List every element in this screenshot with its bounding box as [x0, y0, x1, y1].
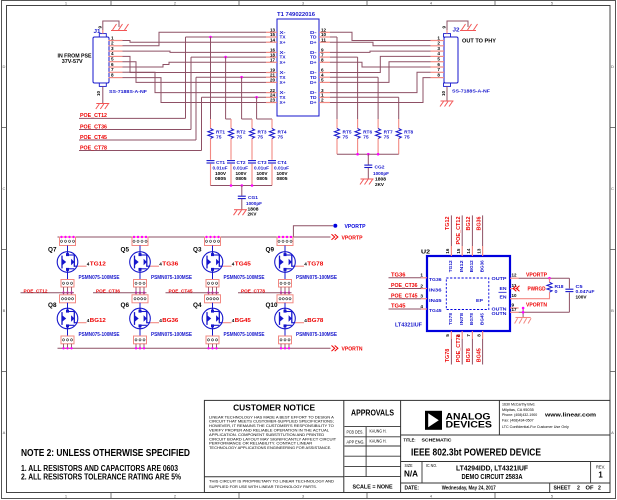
svg-text:EN: EN: [500, 286, 508, 292]
svg-text:VPORTP: VPORTP: [526, 273, 548, 279]
svg-text:75: 75: [258, 135, 264, 140]
svg-text:POE_CT78: POE_CT78: [456, 334, 462, 362]
svg-text:BG45: BG45: [476, 348, 482, 362]
svg-text:VPORTP: VPORTP: [345, 224, 367, 230]
svg-text:Phone: (408)432-1900: Phone: (408)432-1900: [502, 412, 538, 417]
svg-text:Q7: Q7: [48, 248, 57, 254]
svg-text:A: A: [611, 430, 614, 435]
svg-text:IEEE 802.3bt POWERED DEVICE: IEEE 802.3bt POWERED DEVICE: [411, 447, 541, 458]
svg-text:TG36: TG36: [429, 277, 442, 283]
svg-text:D+: D+: [310, 80, 317, 85]
svg-text:Milpitas, CA 95035: Milpitas, CA 95035: [502, 407, 534, 412]
svg-text:X+: X+: [280, 100, 286, 105]
svg-text:SUPPLIED FOR USE WITH LINEAR T: SUPPLIED FOR USE WITH LINEAR TECHNOLOGY …: [209, 484, 317, 489]
svg-text:CT4: CT4: [278, 160, 288, 165]
svg-text:VPORTN: VPORTN: [342, 347, 363, 353]
svg-text:PSMN075-100MSE: PSMN075-100MSE: [224, 275, 266, 281]
svg-text:3: 3: [437, 46, 440, 51]
svg-text:REV.: REV.: [596, 465, 605, 470]
svg-text:SIZE: SIZE: [405, 463, 413, 468]
svg-text:IN12: IN12: [459, 260, 464, 273]
svg-text:POE_CT12: POE_CT12: [456, 216, 462, 244]
svg-text:0.01uF: 0.01uF: [254, 166, 269, 171]
svg-text:www.linear.com: www.linear.com: [544, 413, 597, 419]
svg-text:NOTE 2: UNLESS OTHERWISE SPECI: NOTE 2: UNLESS OTHERWISE SPECIFIED: [21, 448, 190, 459]
svg-text:11: 11: [321, 37, 327, 42]
svg-text:0.01uF: 0.01uF: [233, 166, 248, 171]
svg-text:J1: J1: [94, 29, 101, 35]
svg-text:DATE:: DATE:: [405, 485, 420, 491]
svg-text:IN45: IN45: [429, 298, 442, 304]
svg-text:LT4321IUF: LT4321IUF: [395, 323, 422, 329]
svg-text:3: 3: [111, 46, 114, 51]
svg-text:KAUNG H.: KAUNG H.: [370, 438, 387, 443]
svg-text:TG78: TG78: [445, 349, 451, 363]
svg-text:DEMO CIRCUIT 2583A: DEMO CIRCUIT 2583A: [462, 472, 523, 481]
svg-text:7: 7: [437, 67, 440, 72]
svg-text:X+: X+: [280, 60, 286, 65]
svg-text:TG78: TG78: [448, 313, 453, 325]
svg-text:CG1: CG1: [248, 195, 259, 200]
svg-text:KAUNG H.: KAUNG H.: [370, 429, 387, 434]
svg-text:7: 7: [111, 67, 114, 72]
svg-text:23: 23: [270, 98, 276, 103]
svg-text:PSMN075-100MSE: PSMN075-100MSE: [151, 332, 193, 338]
svg-text:75: 75: [363, 135, 369, 140]
svg-text:TG45: TG45: [235, 262, 251, 268]
svg-text:B: B: [3, 308, 6, 313]
svg-text:PSMN075-100MSE: PSMN075-100MSE: [151, 275, 193, 281]
svg-text:X+: X+: [280, 80, 286, 85]
svg-text:17: 17: [270, 58, 276, 63]
svg-text:CT2: CT2: [237, 160, 247, 165]
svg-text:2. ALL RESISTORS TOLERANCE RAT: 2. ALL RESISTORS TOLERANCE RATING ARE 5%: [21, 473, 181, 482]
svg-text:POE_CT36: POE_CT36: [80, 124, 107, 130]
svg-text:BG78: BG78: [469, 313, 474, 325]
svg-text:Q8: Q8: [48, 303, 57, 309]
svg-text:TITLE:: TITLE:: [404, 437, 416, 442]
svg-text:75: 75: [216, 135, 222, 140]
svg-text:2KV: 2KV: [375, 182, 384, 187]
svg-text:0805: 0805: [257, 176, 269, 181]
svg-text:U2: U2: [421, 250, 430, 256]
svg-text:Q6: Q6: [121, 303, 130, 309]
svg-text:1808: 1808: [375, 176, 387, 181]
svg-text:SS-7188S-A-NF: SS-7188S-A-NF: [109, 89, 147, 94]
svg-text:14: 14: [270, 37, 276, 42]
svg-text:OF: OF: [586, 485, 594, 491]
svg-text:PWRGD: PWRGD: [528, 287, 546, 293]
svg-text:Q9: Q9: [266, 248, 275, 254]
svg-text:17: 17: [512, 307, 517, 313]
svg-text:CT1: CT1: [216, 160, 226, 165]
svg-text:2: 2: [437, 41, 440, 46]
svg-text:N/A: N/A: [404, 470, 418, 479]
svg-text:TG45: TG45: [391, 304, 406, 310]
svg-text:EP: EP: [476, 298, 483, 303]
svg-text:POE_CT36: POE_CT36: [391, 283, 418, 289]
svg-text:A: A: [3, 430, 6, 435]
svg-text:D+: D+: [310, 60, 317, 65]
svg-text:IN78: IN78: [459, 312, 464, 325]
svg-text:BG36: BG36: [479, 260, 484, 272]
svg-text:5: 5: [111, 57, 114, 62]
svg-text:IN36: IN36: [429, 288, 442, 294]
svg-text:SCALE = NONE: SCALE = NONE: [353, 484, 393, 490]
svg-text:CUSTOMER NOTICE: CUSTOMER NOTICE: [233, 403, 315, 413]
svg-text:13: 13: [476, 248, 482, 253]
svg-text:8: 8: [476, 334, 482, 337]
svg-text:TG45: TG45: [429, 308, 442, 314]
svg-text:2: 2: [111, 41, 114, 46]
svg-text:Q3: Q3: [193, 248, 202, 254]
svg-text:75: 75: [237, 135, 243, 140]
svg-text:2: 2: [577, 485, 580, 491]
svg-text:3: 3: [420, 294, 423, 300]
svg-text:TG36: TG36: [391, 273, 406, 279]
svg-text:Q5: Q5: [121, 248, 130, 254]
svg-text:BG78: BG78: [307, 318, 323, 324]
svg-text:PSMN075-100MSE: PSMN075-100MSE: [296, 332, 338, 338]
svg-text:75: 75: [343, 135, 349, 140]
svg-text:D: D: [611, 64, 614, 69]
svg-text:2: 2: [420, 283, 423, 289]
svg-text:D+: D+: [310, 40, 317, 45]
svg-text:75: 75: [384, 135, 390, 140]
svg-text:BG36: BG36: [162, 318, 178, 324]
svg-text:APP ENG.: APP ENG.: [347, 440, 365, 445]
svg-text:6: 6: [111, 62, 114, 67]
svg-text:SCHEMATIC: SCHEMATIC: [422, 437, 453, 442]
svg-text:37V-57V: 37V-57V: [62, 59, 83, 65]
svg-text:75: 75: [404, 135, 410, 140]
svg-text:CG2: CG2: [375, 165, 386, 170]
svg-text:1000pF: 1000pF: [373, 171, 389, 176]
svg-text:TG78: TG78: [307, 262, 323, 268]
svg-text:0: 0: [555, 289, 559, 294]
svg-text:POE_CT36: POE_CT36: [96, 288, 120, 294]
svg-text:0.01uF: 0.01uF: [213, 166, 228, 171]
svg-text:POE_CT12: POE_CT12: [80, 113, 107, 119]
svg-text:2KV: 2KV: [248, 212, 257, 217]
svg-text:2: 2: [598, 485, 601, 491]
svg-text:8: 8: [437, 72, 440, 77]
svg-text:0805: 0805: [215, 176, 227, 181]
svg-text:CT3: CT3: [258, 160, 268, 165]
svg-text:0805: 0805: [236, 176, 248, 181]
svg-text:5: 5: [437, 57, 440, 62]
svg-text:D: D: [3, 64, 6, 69]
svg-text:75: 75: [278, 135, 284, 140]
svg-text:VPORTP: VPORTP: [342, 235, 364, 241]
svg-text:POE_CT45: POE_CT45: [391, 293, 418, 299]
svg-text:LTC Confidential-For Customer: LTC Confidential-For Customer Use Only: [502, 424, 569, 429]
svg-text:BG12: BG12: [90, 318, 106, 324]
svg-text:TG36: TG36: [162, 262, 178, 268]
svg-text:APPROVALS: APPROVALS: [351, 408, 394, 418]
svg-text:10: 10: [96, 90, 101, 96]
svg-text:8: 8: [111, 72, 114, 77]
svg-text:15: 15: [456, 248, 462, 253]
svg-text:PSMN075-100MSE: PSMN075-100MSE: [79, 275, 121, 281]
svg-text:EN: EN: [500, 294, 508, 300]
svg-text:0.01uF: 0.01uF: [274, 166, 289, 171]
svg-text:1: 1: [598, 471, 603, 480]
svg-text:THIS CIRCUIT IS PROPRIETARY TO: THIS CIRCUIT IS PROPRIETARY TO LINEAR TE…: [209, 479, 334, 484]
svg-text:OUTN: OUTN: [492, 311, 508, 317]
svg-text:Wednesday, May 24, 2017: Wednesday, May 24, 2017: [442, 485, 496, 491]
svg-text:PCB DES.: PCB DES.: [347, 430, 364, 435]
svg-text:1: 1: [111, 35, 114, 40]
svg-text:PSMN075-100MSE: PSMN075-100MSE: [79, 332, 121, 338]
svg-text:Q10: Q10: [266, 303, 279, 309]
svg-text:1000pF: 1000pF: [246, 201, 262, 206]
svg-text:4: 4: [420, 304, 423, 310]
svg-text:6: 6: [437, 62, 440, 67]
svg-text:X+: X+: [280, 40, 286, 45]
svg-text:POE_CT45: POE_CT45: [169, 288, 193, 294]
svg-text:OUT TO PHY: OUT TO PHY: [462, 39, 496, 45]
svg-text:BG12: BG12: [466, 216, 472, 230]
svg-text:SHEET: SHEET: [554, 485, 572, 491]
svg-text:4: 4: [111, 51, 114, 56]
svg-text:BG36: BG36: [476, 216, 482, 230]
svg-text:B: B: [611, 308, 614, 313]
svg-text:TG12: TG12: [90, 262, 106, 268]
svg-text:TECHNOLOGY APPLICATIONS ENGINE: TECHNOLOGY APPLICATIONS ENGINEERING FOR …: [209, 445, 331, 450]
svg-text:J2: J2: [453, 28, 460, 34]
svg-text:SS-7188S-A-NF: SS-7188S-A-NF: [452, 89, 490, 94]
svg-text:POE_CT45: POE_CT45: [80, 135, 107, 141]
svg-text:12: 12: [512, 273, 517, 279]
svg-text:0805: 0805: [277, 176, 289, 181]
svg-text:Fax: (408)434-0507: Fax: (408)434-0507: [502, 418, 534, 423]
svg-text:10: 10: [441, 90, 446, 96]
svg-text:POE_CT78: POE_CT78: [241, 288, 265, 294]
svg-text:IC NO.: IC NO.: [426, 463, 437, 468]
svg-text:1: 1: [420, 273, 423, 279]
svg-text:OUTP: OUTP: [492, 276, 508, 282]
svg-text:T1 749022016: T1 749022016: [277, 12, 315, 18]
svg-text:DEVICES: DEVICES: [446, 420, 493, 430]
svg-text:1: 1: [437, 35, 440, 40]
svg-text:BG78: BG78: [466, 348, 472, 362]
svg-text:Q4: Q4: [193, 303, 202, 309]
svg-text:TG12: TG12: [448, 260, 453, 272]
svg-text:5: 5: [445, 334, 451, 337]
svg-text:C: C: [3, 186, 6, 191]
svg-text:16: 16: [445, 248, 451, 253]
svg-text:D+: D+: [310, 100, 317, 105]
svg-text:20: 20: [270, 78, 276, 83]
svg-text:BG12: BG12: [469, 260, 474, 272]
svg-text:14: 14: [466, 248, 472, 253]
svg-text:7: 7: [466, 334, 472, 337]
svg-text:POE_CT12: POE_CT12: [24, 288, 48, 294]
svg-text:TG12: TG12: [445, 216, 451, 230]
svg-text:PSMN075-100MSE: PSMN075-100MSE: [296, 275, 338, 281]
svg-text:POE_CT78: POE_CT78: [80, 145, 107, 151]
svg-text:C: C: [611, 186, 614, 191]
svg-text:VPORTN: VPORTN: [526, 303, 547, 309]
svg-text:BG45: BG45: [235, 318, 251, 324]
svg-text:PSMN075-100MSE: PSMN075-100MSE: [224, 332, 266, 338]
svg-text:4: 4: [437, 51, 440, 56]
svg-text:10: 10: [512, 293, 517, 299]
svg-text:100V: 100V: [576, 294, 588, 299]
svg-text:BG45: BG45: [479, 313, 484, 325]
